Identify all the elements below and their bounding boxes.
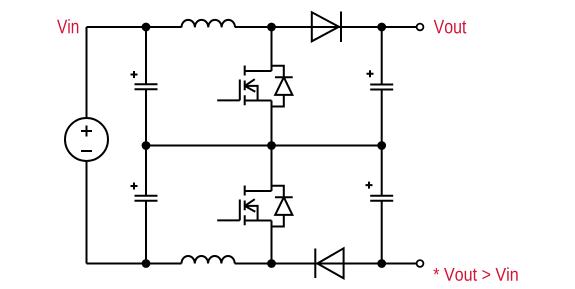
capacitor C1 (131, 71, 158, 89)
wire middle rail to C2 (145, 146, 147, 196)
wire bottom rail left segment (87, 263, 182, 265)
inductor L2 (182, 256, 235, 264)
transistor Q2 (217, 186, 271, 226)
junction bottom rail / C4 (378, 260, 385, 267)
wire middle rail to Q2 drain (271, 146, 273, 192)
wire middle rail (146, 145, 382, 147)
junction top rail / Q1 drain (268, 24, 275, 31)
wire top rail to Q1 drain (271, 27, 273, 71)
junction top rail / C3 (378, 24, 385, 31)
junction bottom rail / C2 (143, 260, 150, 267)
wire middle rail to C4 (381, 146, 383, 196)
diode D1 (312, 12, 341, 43)
junction bottom rail / Q2 source (268, 260, 275, 267)
inductor L1 (182, 20, 236, 28)
wire right cap column upper (381, 27, 383, 85)
wire from Vin corner down to source V1 top (86, 27, 88, 118)
capacitor C2 (131, 183, 158, 201)
wire left cap column upper (145, 27, 147, 84)
terminal output bottom (417, 260, 424, 267)
voltage source V1 (65, 118, 108, 161)
junction top rail / C1 (143, 24, 150, 31)
body diode of Q2 (272, 186, 293, 227)
junction middle rail / C3-C4 (378, 142, 385, 149)
wire top rail left segment (87, 26, 182, 28)
node Vin label (57, 19, 78, 33)
wire C4 to bottom rail (381, 201, 383, 264)
capacitor C4 (366, 182, 394, 201)
wire top rail right segment (235, 26, 416, 28)
capacitor C3 (367, 70, 394, 89)
transistor Q1 (217, 66, 271, 106)
body diode of Q1 (272, 66, 293, 107)
wire C1 to middle rail (145, 89, 147, 145)
diode D2 (315, 248, 343, 278)
wire Q1 source to middle rail (271, 101, 273, 146)
wire from source V1 bottom to bottom rail (86, 161, 88, 264)
wire C3 to middle rail (381, 90, 383, 146)
note label Vout greater than Vin (433, 267, 517, 281)
junction middle rail / C1-C2 (143, 142, 150, 149)
wire bottom rail right segment (235, 263, 417, 265)
wire C2 to bottom rail (145, 201, 147, 264)
terminal Vout (417, 24, 424, 31)
wire Q2 source to bottom rail (271, 221, 273, 264)
junction middle rail / Q1-Q2 (268, 142, 275, 149)
node Vout label (434, 20, 467, 34)
